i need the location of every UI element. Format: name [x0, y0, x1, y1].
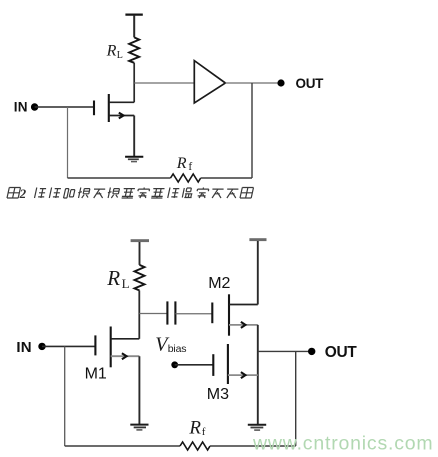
wire feedback bottom left (bottom circuit)	[65, 445, 180, 447]
wire feedback bottom right (top circuit)	[201, 177, 252, 179]
wire feedback bottom right (bottom circuit)	[210, 445, 296, 447]
resistor Rf (bottom circuit)	[180, 442, 210, 450]
svg-text:M1: M1	[85, 366, 107, 383]
ground right (bottom circuit)	[248, 424, 266, 426]
svg-text:www.cntronics.com: www.cntronics.com	[252, 433, 433, 455]
transistor M2 source arrow	[241, 322, 246, 328]
transistor M3 gate bar	[212, 354, 214, 376]
svg-text:R: R	[106, 43, 117, 60]
svg-text:IN: IN	[14, 99, 28, 114]
wire M2 source to ground rail	[257, 325, 259, 425]
power rail VDD top circuit	[125, 14, 142, 16]
wire OUT (bottom circuit)	[258, 350, 312, 352]
svg-text:R: R	[106, 266, 120, 290]
svg-text:IN: IN	[16, 339, 31, 356]
wire IN to M1 gate	[42, 345, 95, 347]
svg-text:R: R	[176, 155, 187, 172]
svg-text:f: f	[202, 426, 206, 438]
wire feedback rise to OUT (top circuit)	[251, 83, 253, 178]
wire capacitor to M2 gate	[175, 313, 211, 315]
svg-text:L: L	[122, 276, 130, 291]
transistor Q1 source arrow	[119, 113, 124, 119]
transistor Q1 source wire	[109, 115, 134, 117]
transistor M2 channel bar	[228, 294, 230, 335]
power rail VDD right (bottom circuit)	[249, 238, 266, 241]
wire node to capacitor	[139, 313, 167, 315]
node IN (bottom circuit)	[38, 343, 45, 350]
transistor M2 drain wire	[229, 304, 258, 306]
transistor M3 source arrow	[241, 372, 246, 378]
wire feedback tap from IN (top circuit)	[67, 107, 69, 178]
svg-text:L: L	[117, 50, 123, 61]
wire Vbias to M3 gate	[175, 364, 213, 366]
node IN (top circuit)	[31, 103, 38, 110]
resistor RL (top circuit)	[129, 37, 139, 62]
transistor M1 source wire	[111, 355, 140, 357]
svg-text:f: f	[188, 161, 192, 173]
wire RL to M1 drain	[138, 291, 140, 339]
svg-text:OUT: OUT	[296, 76, 325, 91]
op-amp buffer U1	[194, 61, 225, 103]
transistor M2 gate bar	[211, 303, 213, 324]
svg-text:M2: M2	[208, 275, 230, 292]
capacitor C1 plates	[166, 301, 168, 324]
resistor RL (bottom circuit)	[135, 265, 145, 291]
transistor Q1 gate bar	[93, 101, 95, 116]
node OUT (top circuit)	[277, 79, 284, 86]
svg-text:bias: bias	[168, 343, 186, 355]
node Vbias	[171, 361, 178, 368]
wire feedback rise to OUT (bottom circuit)	[295, 351, 297, 446]
transistor Q1 channel bar	[108, 94, 110, 122]
caption figure 2 pseudo-CJK strokes	[7, 188, 254, 199]
wire VDD right to M2 drain	[257, 241, 259, 305]
wire drain node to buffer input	[134, 82, 194, 84]
ground under M1	[130, 424, 148, 426]
transistor M3 channel bar	[227, 344, 229, 384]
wire RL to drain node	[133, 63, 135, 103]
transistor M1 drain wire	[111, 338, 140, 340]
power rail VDD left (bottom circuit)	[131, 239, 149, 242]
transistor M3 source wire	[228, 374, 258, 376]
wire feedback bottom left (top circuit)	[68, 177, 171, 179]
transistor M1 gate bar	[94, 335, 96, 355]
wire VDD to RL	[133, 15, 135, 37]
wire buffer output to OUT	[225, 82, 281, 84]
wire source to ground (top circuit)	[133, 116, 135, 157]
svg-text:2: 2	[19, 186, 27, 201]
svg-text:OUT: OUT	[325, 344, 357, 361]
svg-text:R: R	[188, 417, 201, 438]
transistor M2 source wire	[229, 324, 258, 326]
wire feedback tap from IN (bottom circuit)	[64, 346, 66, 446]
svg-text:M3: M3	[207, 386, 229, 403]
ground (top circuit)	[125, 156, 143, 158]
transistor Q1 drain wire	[109, 101, 134, 103]
node OUT (bottom circuit)	[308, 348, 315, 355]
wire IN to gate	[35, 106, 94, 108]
wire VDD to RL (bottom)	[139, 242, 141, 265]
transistor M1 source arrow	[122, 353, 127, 359]
resistor Rf (top circuit)	[171, 174, 201, 182]
wire M1 source to ground	[138, 356, 140, 424]
transistor M1 channel bar	[110, 327, 112, 368]
